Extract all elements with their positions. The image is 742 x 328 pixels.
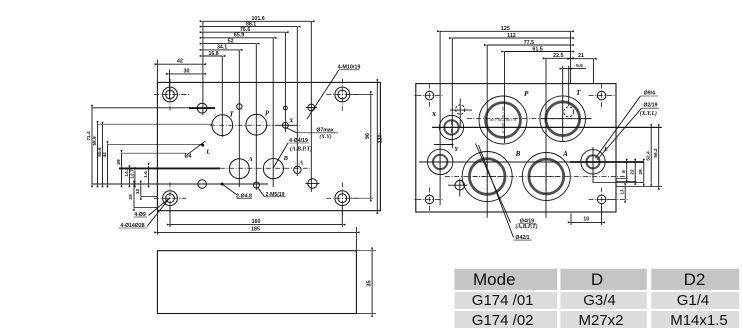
- svg-text:P: P: [524, 90, 529, 98]
- svg-text:X: X: [431, 111, 437, 118]
- svg-text:P: P: [265, 110, 270, 118]
- svg-text:10: 10: [583, 217, 589, 223]
- svg-text:12.7: 12.7: [129, 169, 135, 179]
- svg-text:125: 125: [501, 26, 510, 32]
- svg-text:M14x1.5: M14x1.5: [670, 312, 728, 328]
- svg-text:96: 96: [365, 133, 371, 139]
- svg-text:A: A: [562, 150, 568, 158]
- svg-text:13: 13: [619, 189, 625, 195]
- svg-text:(X.Y.L): (X.Y.L): [640, 110, 657, 117]
- svg-text:185: 185: [251, 227, 260, 233]
- svg-text:35: 35: [366, 280, 372, 287]
- svg-text:(A.B.P.T): (A.B.P.T): [290, 146, 312, 153]
- svg-text:Ø2/19: Ø2/19: [643, 103, 657, 109]
- svg-text:21: 21: [578, 53, 584, 59]
- svg-text:23: 23: [128, 194, 134, 200]
- svg-text:(X.Y): (X.Y): [319, 133, 331, 140]
- svg-text:G174 /01: G174 /01: [472, 292, 534, 309]
- svg-text:D: D: [591, 270, 603, 289]
- svg-text:B: B: [515, 150, 521, 158]
- svg-text:34.1: 34.1: [217, 45, 227, 51]
- svg-text:16.8: 16.8: [208, 51, 218, 57]
- svg-text:G1/4: G1/4: [677, 292, 710, 309]
- svg-text:A: A: [247, 156, 253, 163]
- svg-text:Mode: Mode: [473, 270, 516, 289]
- svg-text:52.4: 52.4: [645, 151, 651, 161]
- svg-text:M27x2: M27x2: [578, 312, 623, 328]
- svg-text:L: L: [205, 149, 210, 156]
- svg-text:112: 112: [507, 33, 516, 39]
- svg-text:1.6: 1.6: [143, 171, 149, 178]
- svg-text:29: 29: [638, 169, 644, 175]
- svg-text:T: T: [576, 89, 581, 97]
- svg-text:Ø4: Ø4: [185, 154, 192, 160]
- svg-text:12: 12: [135, 189, 141, 195]
- svg-text:61.5: 61.5: [532, 46, 542, 52]
- svg-text:56.2: 56.2: [653, 148, 659, 158]
- svg-text:5.5: 5.5: [576, 63, 583, 69]
- svg-text:42: 42: [177, 59, 183, 65]
- svg-text:(A,B,P,T): (A,B,P,T): [515, 223, 537, 230]
- svg-text:A: A: [298, 160, 303, 166]
- svg-text:65.9: 65.9: [234, 33, 244, 39]
- svg-text:22: 22: [629, 169, 635, 175]
- svg-text:52: 52: [228, 38, 234, 44]
- svg-text:44: 44: [102, 152, 108, 158]
- svg-text:120: 120: [377, 135, 383, 144]
- svg-text:71.4: 71.4: [86, 131, 92, 141]
- svg-text:14.3: 14.3: [124, 167, 130, 177]
- svg-text:B: B: [283, 155, 289, 162]
- svg-text:8: 8: [621, 170, 627, 173]
- svg-text:29: 29: [116, 159, 122, 165]
- svg-text:22.5: 22.5: [553, 53, 563, 59]
- svg-text:G174 /02: G174 /02: [472, 312, 534, 328]
- svg-text:G3/4: G3/4: [583, 292, 616, 309]
- svg-text:77.5: 77.5: [524, 40, 534, 46]
- svg-text:58.9: 58.9: [92, 136, 98, 146]
- svg-text:160: 160: [252, 219, 261, 225]
- svg-text:T: T: [229, 111, 234, 119]
- svg-text:D2: D2: [684, 270, 706, 289]
- svg-text:X: X: [288, 118, 294, 125]
- svg-text:30: 30: [184, 68, 190, 74]
